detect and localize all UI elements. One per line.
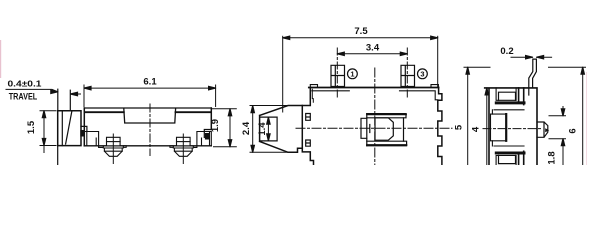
cover bar top <box>519 88 524 105</box>
svg-text:0.2: 0.2 <box>500 46 513 57</box>
plunger inner tip lines <box>260 117 278 141</box>
travel extension line left <box>57 89 59 111</box>
terminal 2 (right) <box>173 134 193 164</box>
button flange hook left (filled) <box>80 130 84 137</box>
travel extension line right <box>69 90 71 111</box>
scan artifact pink sliver <box>0 40 1 78</box>
svg-text:2.4: 2.4 <box>241 121 252 135</box>
svg-text:7.5: 7.5 <box>354 26 368 37</box>
dimension 4 <box>486 88 488 165</box>
6.1 extension line right <box>215 85 217 107</box>
svg-text:4: 4 <box>471 126 482 132</box>
dimension 1.5 ticks <box>40 111 56 146</box>
body bottom line <box>84 145 211 147</box>
svg-text:5: 5 <box>454 124 465 130</box>
svg-text:3.4: 3.4 <box>366 43 380 54</box>
right castellated wall <box>438 88 442 166</box>
top notch inner rect <box>499 92 516 100</box>
svg-text:0.4±0.1: 0.4±0.1 <box>8 79 42 89</box>
body outline <box>485 88 537 165</box>
top trough <box>124 109 176 123</box>
dimension 1.8 <box>549 116 566 139</box>
top corner bumps <box>310 85 438 88</box>
view2 vertical centerline <box>374 68 376 165</box>
svg-text:6: 6 <box>568 128 579 133</box>
bump tip filled <box>545 128 549 132</box>
center contact window top bar <box>367 114 406 118</box>
circled 3 <box>418 69 428 79</box>
svg-text:1.8: 1.8 <box>547 151 558 164</box>
bottom notch white rect <box>496 156 516 166</box>
right frame block <box>193 132 212 148</box>
svg-text:1.9: 1.9 <box>210 119 221 132</box>
right step <box>204 130 211 138</box>
view3 centerline <box>483 128 542 130</box>
body top edge <box>84 107 211 109</box>
circled 1 <box>348 69 358 79</box>
dimension 5 <box>467 67 469 165</box>
pin <box>529 59 537 95</box>
cover bar bottom <box>519 151 524 165</box>
body left edge <box>83 108 85 146</box>
top notch white rect <box>496 88 516 100</box>
dimension 0.4±0.1 TRAVEL leader <box>6 89 58 91</box>
side bump <box>537 122 548 137</box>
button (side plunger) <box>58 111 81 146</box>
button diagonal <box>66 112 72 144</box>
tab centerlines <box>337 48 407 97</box>
left frame block <box>84 132 104 148</box>
bottom notch inner rect <box>499 156 516 164</box>
cover band top (thick) <box>496 101 524 104</box>
button inner vertical <box>61 111 63 146</box>
body top edge <box>309 87 439 89</box>
plunger top view <box>260 106 303 153</box>
tab 1 <box>331 65 345 86</box>
middle tab <box>491 114 507 141</box>
view1 centerline <box>149 104 151 156</box>
travel arrow <box>51 90 58 93</box>
svg-text:1: 1 <box>350 70 354 79</box>
dimension 7.5 <box>283 37 438 39</box>
top seam (thick) <box>85 111 211 113</box>
svg-text:1.4: 1.4 <box>257 122 268 136</box>
terminal 1 (left) <box>103 134 123 164</box>
base step segments at terminals <box>123 146 174 148</box>
dimension 1.5 line <box>43 111 45 153</box>
dimension 0.2 <box>511 56 533 58</box>
button left edge descender <box>57 146 59 165</box>
svg-text:3: 3 <box>420 70 424 79</box>
dimension 3.4 <box>337 53 407 55</box>
dimension 6 <box>582 67 584 165</box>
tab 3 <box>401 65 415 86</box>
svg-text:TRAVEL: TRAVEL <box>9 92 38 102</box>
inner rim line (split at tabs) <box>312 91 438 100</box>
inner D shape <box>375 118 393 140</box>
left inner wall line <box>312 89 313 102</box>
window side edges <box>367 114 404 146</box>
body right edge <box>210 108 212 130</box>
right hook (filled) <box>205 133 209 140</box>
cover band bottom (thick) <box>496 152 524 155</box>
svg-text:1.5: 1.5 <box>26 120 37 134</box>
view2 horizontal centerline <box>296 127 452 129</box>
step line upper <box>492 110 524 114</box>
dimension 2.4 <box>252 106 254 153</box>
2.4 extension lines <box>250 106 288 153</box>
dimension 6.1 line <box>84 87 216 89</box>
button step to body <box>81 126 87 131</box>
top extension lines <box>464 66 586 68</box>
center contact window bottom bar <box>367 141 407 146</box>
travel second arrow <box>71 93 81 95</box>
6.1 extension line left <box>83 85 85 107</box>
step line lower <box>492 141 524 146</box>
dimension 1.9 <box>213 109 237 147</box>
svg-text:6.1: 6.1 <box>143 77 157 88</box>
left wall <box>302 88 313 166</box>
guide rails <box>306 114 311 147</box>
left tab of window <box>361 118 370 138</box>
dimension 1.4 <box>267 117 269 141</box>
